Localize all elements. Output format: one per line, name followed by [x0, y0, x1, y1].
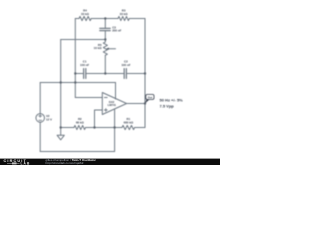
junction C3/R5/ground wire: [104, 38, 106, 40]
wire node X row: [61, 39, 106, 41]
wire op-amp V- column: [114, 109, 116, 152]
capacitor C1: [84, 69, 86, 79]
svg-text:200 nF: 200 nF: [112, 29, 121, 33]
wire: [86, 127, 123, 129]
wire op-amp minus input: [75, 97, 102, 99]
op-amp OA2 triangle: [102, 93, 126, 115]
svg-text:LM741: LM741: [108, 103, 117, 107]
junction ground column / rail: [60, 81, 62, 83]
wire op-amp plus input: [95, 110, 103, 128]
wire node A left column: [74, 19, 76, 98]
ground: [60, 128, 62, 136]
junction node Out: [144, 102, 146, 104]
resistor R1: [122, 125, 135, 129]
wire: [126, 73, 145, 75]
svg-text:33 kΩ: 33 kΩ: [81, 12, 90, 16]
wire supply rail: [40, 82, 115, 84]
resistor R4: [79, 16, 91, 20]
wire: [86, 73, 124, 75]
wire: [91, 18, 118, 20]
svg-text:680 kΩ: 680 kΩ: [124, 120, 134, 124]
svg-text:LAB: LAB: [21, 162, 31, 165]
wire C1-C2 row: [75, 73, 83, 75]
wire ground column: [60, 40, 62, 128]
wire mid column above C3: [104, 19, 106, 29]
wire op-amp V+ riser: [115, 83, 117, 100]
wire node B right column: [144, 19, 146, 128]
junction node A column / rail: [74, 81, 76, 83]
wire top (node A to node B): [75, 18, 79, 20]
wire bottom row: [40, 151, 114, 153]
voltage source V2: [36, 114, 45, 123]
junction R4/R3/C3: [104, 17, 106, 19]
junction R1 / V- column: [113, 126, 115, 128]
resistor R3: [118, 16, 129, 20]
svg-text:10 kΩ: 10 kΩ: [94, 46, 103, 50]
wire: [135, 127, 145, 129]
junction C1/C2/R5: [104, 72, 106, 74]
svg-text:12 V: 12 V: [46, 117, 52, 121]
footer text: [46, 158, 97, 165]
wire: [129, 18, 145, 20]
footer bar: [0, 159, 220, 165]
footer CircuitLab logo: [4, 159, 31, 166]
node Out flag: [145, 94, 154, 103]
R5 wiper: [109, 48, 116, 50]
wire V2 top: [39, 83, 41, 114]
svg-text:http://circuitlab.com/c/cqa8dr: http://circuitlab.com/c/cqa8dr: [46, 161, 84, 165]
wire V2 bottom: [39, 122, 41, 151]
junction node A / C1: [74, 72, 76, 74]
capacitor C3: [100, 28, 110, 30]
junction ground / R2: [60, 126, 62, 128]
wire op-amp output: [127, 103, 145, 105]
junction C2 / node B column: [144, 72, 146, 74]
svg-text:7.5 Vpp: 7.5 Vpp: [160, 103, 175, 108]
svg-text:50 Hz +/- 5%: 50 Hz +/- 5%: [160, 98, 184, 103]
resistor R2: [74, 125, 86, 129]
svg-text:33 kΩ: 33 kΩ: [120, 12, 129, 16]
svg-text:68 kΩ: 68 kΩ: [76, 120, 85, 124]
wire R2/R1 row: [61, 127, 74, 129]
svg-text:Out: Out: [148, 96, 153, 100]
junction R2 / plus input riser: [93, 126, 95, 128]
potentiometer R5: [103, 42, 107, 55]
wire: [104, 55, 106, 73]
svg-text:100 nF: 100 nF: [121, 63, 130, 67]
wire: [104, 31, 106, 42]
capacitor C2: [124, 69, 126, 79]
svg-text:100 nF: 100 nF: [80, 63, 89, 67]
